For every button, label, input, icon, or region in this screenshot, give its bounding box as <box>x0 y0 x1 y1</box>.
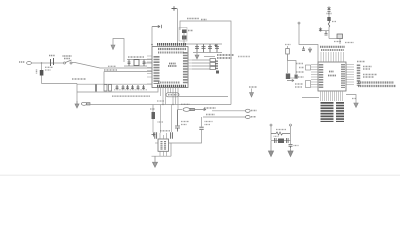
chip U3 top pin stubs <box>321 52 344 62</box>
wire main 5V bus <box>90 104 231 106</box>
resistor R6 box <box>210 67 216 70</box>
wire U1 right D1 <box>192 62 210 64</box>
fuse L1 label <box>181 103 190 105</box>
chip U1 right pin stubs <box>188 60 192 69</box>
ground GND1 arrow <box>75 101 79 108</box>
fuse L1 oval <box>178 109 182 111</box>
net label usb-vcc text <box>187 18 199 20</box>
crystal Y1 body <box>134 60 139 66</box>
capacitor C5 <box>131 85 134 90</box>
switch SW1 labels <box>63 56 72 59</box>
net arrow VIN <box>195 108 207 110</box>
resistor R10 zigzag <box>271 132 290 135</box>
chip U3 right text USB <box>363 67 372 70</box>
junction dots on bus <box>162 104 163 105</box>
capacitor C25 <box>289 145 293 149</box>
net label capsule ADC <box>166 93 179 97</box>
ground GND2 U-wire <box>113 39 124 63</box>
net capsule VBUS <box>245 109 250 112</box>
net label reset row <box>72 78 86 80</box>
capacitor C3 <box>122 85 125 90</box>
chip U1 body <box>152 47 188 88</box>
wire switch to mcu (diagonal) <box>72 63 152 69</box>
ground GND9 right <box>288 149 293 157</box>
chip U1 bottom pin names row2 <box>157 85 186 88</box>
wire bus to caps <box>161 105 172 134</box>
wire net out right <box>179 96 228 98</box>
wire U1 right D0 <box>192 59 210 61</box>
resistor boxes left <box>306 65 311 70</box>
crystal circuit U3: net stub left <box>270 124 272 126</box>
capacitor C7 <box>142 85 145 90</box>
diode D1 <box>40 70 44 76</box>
capacitor C1 label <box>49 55 55 57</box>
crystal Y1 rail bottom <box>124 65 147 67</box>
chip U3 right pin stubs <box>346 65 354 85</box>
power flag AVCC <box>152 25 162 28</box>
power flag VCC2 top right <box>328 7 331 12</box>
net text <box>206 114 215 116</box>
chip U3 right inner labels <box>341 64 345 88</box>
capacitor C19 <box>171 132 173 139</box>
wire ground drop <box>76 84 78 104</box>
wire right bottom U3 <box>346 95 356 101</box>
wire bottom left of U3 <box>302 97 319 99</box>
regulator U2 bottom pins <box>160 151 167 156</box>
resistor R4 box <box>210 59 216 62</box>
capacitor C23 bars <box>275 138 277 143</box>
power flag 3v3 <box>319 28 322 32</box>
wire C20 up to net <box>201 117 203 127</box>
resistor R10 label <box>276 129 286 131</box>
wire VBUS net <box>212 110 245 112</box>
net ICSP text <box>217 55 234 58</box>
ground GND6 small <box>308 47 311 53</box>
crystal Y1 rail top <box>127 59 152 61</box>
net capsule DPLUS <box>245 115 250 118</box>
capacitor C10 <box>182 30 187 34</box>
note text place C1 C2 near <box>112 95 150 97</box>
capacitor labels above regulator <box>160 130 170 132</box>
capacitor C21 <box>325 31 328 35</box>
regulator U2 top pins <box>160 133 167 139</box>
chip U3 refdes <box>328 72 336 76</box>
ferrite bead FB1 <box>328 11 330 17</box>
ground GND8 left <box>268 141 273 157</box>
capacitor C12 <box>195 44 199 53</box>
fuse F1 <box>81 102 86 105</box>
capacitor C13 <box>202 44 206 53</box>
capacitor bank outline <box>179 28 187 42</box>
chip U3 right outer labels row1 <box>357 61 365 63</box>
wire bypass rail top <box>184 43 222 45</box>
capacitor C14 <box>208 44 212 53</box>
capacitor C8 <box>128 60 131 67</box>
net arrow ICSP <box>204 56 215 58</box>
capacitor C11 <box>182 36 187 40</box>
resistor R8 chain left of U3 <box>287 46 289 49</box>
crystal Y1 label <box>128 56 144 58</box>
chip U1 top pin names row2 <box>158 52 184 54</box>
capacitor C6 <box>137 85 140 90</box>
capacitor C9 <box>143 60 146 67</box>
wire D11 net <box>104 72 152 85</box>
net label small <box>157 100 164 102</box>
capacitor C2 <box>116 85 119 90</box>
switch SW1 <box>64 62 66 64</box>
chip U3 left pin stubs <box>311 65 318 88</box>
wire D+ net <box>203 116 245 118</box>
chip U1 bottom pin names row1 <box>158 82 180 84</box>
chip U1 left pin names <box>154 56 160 84</box>
ground GND7 <box>354 100 358 108</box>
wire top net <box>180 21 231 105</box>
chip U3 bottom label block1 <box>321 102 334 122</box>
capacitor C23 label <box>274 135 279 137</box>
capacitor C1 <box>51 58 54 66</box>
connector J1 barrel jack <box>27 62 32 65</box>
chip U3 bottom pin stubs <box>321 91 343 101</box>
net label blue <box>104 69 117 71</box>
chip U1 bottom wires <box>161 88 179 110</box>
wire label marks <box>158 121 164 123</box>
diode D1 label <box>36 70 38 74</box>
ground GND5 <box>153 156 158 167</box>
capacitor C4 <box>126 85 129 90</box>
capacitor C15 <box>215 44 220 53</box>
text row under box <box>334 42 354 43</box>
wire AVCC to chip <box>151 27 153 47</box>
capacitor C20 <box>199 127 203 129</box>
ground GND2 arrow <box>111 45 115 50</box>
inductor L2 <box>328 21 330 27</box>
chip U1 refdes <box>168 64 177 67</box>
regulator U2 inner text <box>162 141 166 150</box>
diode D3 <box>286 74 290 80</box>
ground GND4 arrow <box>250 89 254 98</box>
net stub top left of U3 <box>298 22 300 24</box>
resistor R9 label <box>352 98 356 100</box>
regulator bottom rail <box>152 155 172 157</box>
capacitor C24 bars <box>287 138 289 143</box>
resistor labels <box>215 61 218 70</box>
diode D1 value label <box>45 67 53 70</box>
power flag VCC top <box>172 6 177 11</box>
wire node A bottom to ground rail <box>42 83 78 85</box>
wire down from node A <box>41 63 43 84</box>
crystal Y2 body <box>278 139 284 144</box>
chip U1 top pin names row1 <box>158 48 186 50</box>
cap value labels row <box>114 89 147 91</box>
chip U1 top pin numbers <box>157 43 186 46</box>
wire left vcc drop <box>299 24 318 62</box>
capacitor C22 <box>302 46 307 50</box>
chip U3 bottom label block2 <box>336 102 344 122</box>
crystal Y2 line <box>271 140 291 142</box>
led D2 <box>216 71 219 74</box>
wire reset to rail <box>77 88 158 93</box>
connector J1 9V jack label <box>19 61 25 63</box>
wire caps to chip top <box>183 33 185 46</box>
wire reset rail <box>77 83 152 85</box>
power flag small <box>152 133 156 137</box>
regulator U2 left pin <box>155 142 158 144</box>
resistor R1 <box>95 85 97 92</box>
regulator U2 body <box>158 139 169 151</box>
wire crystal to xtal2 pin <box>144 62 152 64</box>
chip U3 right long text rows <box>358 81 394 83</box>
resistor R3 box <box>109 85 112 92</box>
capacitor C18 <box>155 132 157 139</box>
chip U3 left inner labels <box>319 64 324 89</box>
wire U1 right D2 <box>192 65 210 67</box>
resistors column right <box>357 65 361 87</box>
ground GND4 text <box>249 86 257 88</box>
wire bypass rail bottom <box>193 52 222 54</box>
capacitor C17 label <box>181 122 189 125</box>
crystal wires verticals <box>271 126 291 144</box>
chip U1 left pin stubs <box>147 56 152 84</box>
resistor R2 box <box>104 85 107 92</box>
capacitor C17 <box>175 110 180 132</box>
wire D10 net <box>108 65 116 67</box>
sheet bottom border <box>0 174 400 176</box>
component X2 box <box>337 34 343 39</box>
regulator right side wire <box>169 130 202 156</box>
ground GND3 arrow <box>195 53 199 59</box>
chip U1 right pin names <box>183 52 188 84</box>
wire U1 right D3 <box>192 68 210 70</box>
chip U3 top pin labels <box>320 46 345 48</box>
wire box down <box>339 39 341 45</box>
net text above <box>204 107 216 109</box>
wire chain down <box>328 27 330 39</box>
wire VCC down to chip <box>177 9 178 47</box>
net arrow MCLR <box>287 79 294 81</box>
wire input to switch <box>32 62 64 64</box>
node A junction <box>41 62 42 63</box>
resistor R5 box <box>210 63 216 66</box>
chip U3 right text VBUS <box>363 75 377 78</box>
chip U3 body <box>318 62 346 91</box>
chip U3 left outer labels <box>295 64 304 88</box>
junction dot <box>151 44 153 46</box>
capacitor C25 label <box>294 145 299 147</box>
wire to box <box>329 38 337 40</box>
capacitor C20 label <box>205 122 213 125</box>
regulator chain resistor R7 <box>152 105 154 113</box>
